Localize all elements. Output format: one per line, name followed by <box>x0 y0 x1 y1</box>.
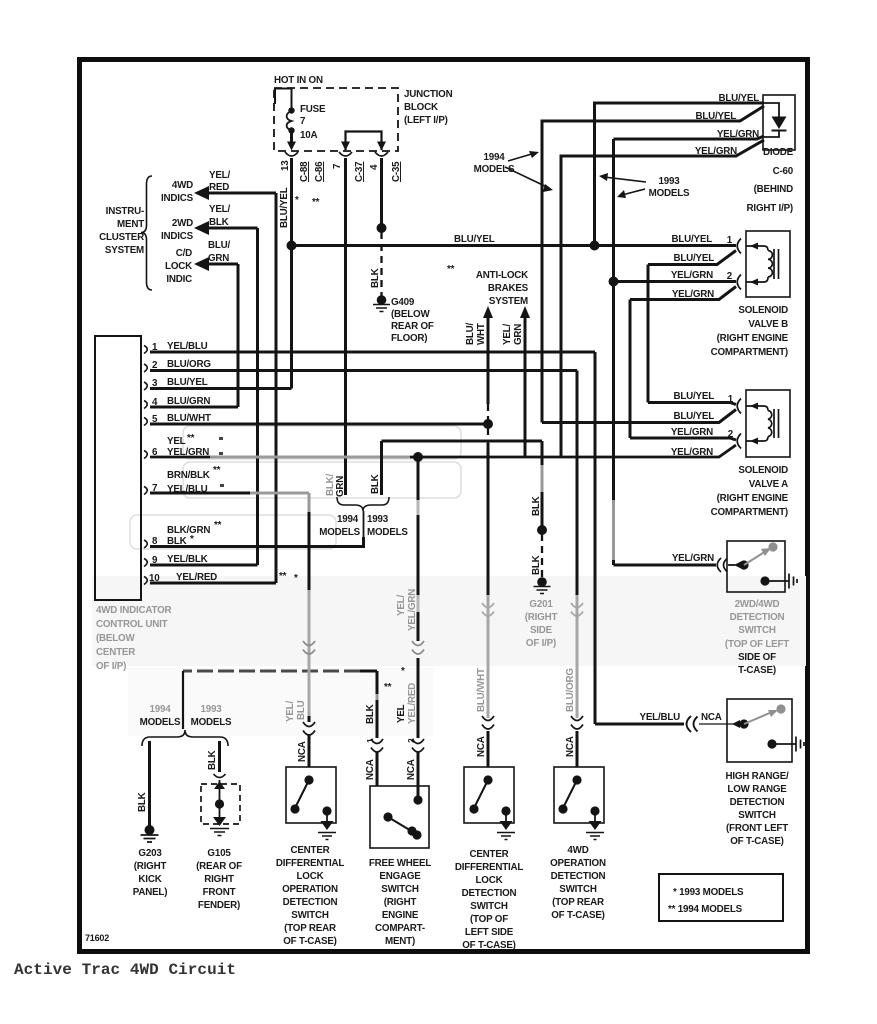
svg-text:7: 7 <box>332 163 343 169</box>
svg-text:REAR OF: REAR OF <box>391 321 434 332</box>
svg-text:1: 1 <box>727 235 733 246</box>
svg-text:YEL/BLU: YEL/BLU <box>639 712 680 723</box>
svg-text:NCA: NCA <box>476 736 487 757</box>
diode C-60 box <box>763 95 795 150</box>
svg-text:SWITCH: SWITCH <box>559 884 597 895</box>
svg-text:10A: 10A <box>300 130 317 141</box>
svg-text:OF T-CASE): OF T-CASE) <box>551 910 605 921</box>
svg-text:COMPARTMENT): COMPARTMENT) <box>711 347 788 358</box>
svg-text:HOT IN ON: HOT IN ON <box>274 75 323 86</box>
vertical YEL/GRN 1993 down to 2wd4wd switch <box>612 139 615 565</box>
svg-text:GRN: GRN <box>208 253 229 264</box>
C/D LOCK INDIC label <box>165 248 192 285</box>
YEL/BLK label <box>209 204 230 228</box>
wire YEL/GRN second to solenoid B <box>630 287 736 300</box>
svg-text:G201: G201 <box>529 599 553 610</box>
svg-text:1993: 1993 <box>659 176 681 187</box>
svg-text:YEL/GRN: YEL/GRN <box>672 553 714 564</box>
high range switch internals <box>732 704 804 751</box>
svg-text:MODELS: MODELS <box>367 527 408 538</box>
svg-text:YEL/BLU: YEL/BLU <box>167 341 208 352</box>
svg-text:NCA: NCA <box>565 736 576 757</box>
svg-text:OPERATION: OPERATION <box>550 858 606 869</box>
svg-text:YEL/RED: YEL/RED <box>176 572 217 583</box>
svg-text:(TOP REAR: (TOP REAR <box>284 923 336 934</box>
pin numbers <box>149 342 160 584</box>
models divider middle <box>363 511 365 547</box>
control unit label (gray) <box>96 605 172 672</box>
svg-text:FENDER): FENDER) <box>198 900 240 911</box>
svg-text:YEL/: YEL/ <box>285 701 296 722</box>
wire YEL/GRN 1994 to diode <box>561 140 764 457</box>
svg-text:SIDE OF: SIDE OF <box>738 652 776 663</box>
2WD/4WD detection switch box <box>727 541 785 592</box>
svg-text:C-88: C-88 <box>299 161 310 182</box>
svg-text:OF T-CASE): OF T-CASE) <box>283 936 337 947</box>
center diff lock detection switch box <box>464 767 514 823</box>
svg-text:YEL/: YEL/ <box>209 204 230 215</box>
pin10 wire YEL/RED <box>150 582 276 585</box>
connector free wheel pin2 <box>412 739 424 752</box>
svg-text:YEL: YEL <box>396 704 407 723</box>
hot bus solid corner <box>275 89 292 109</box>
fuse 7 10A <box>287 104 326 151</box>
svg-text:BLU/GRN: BLU/GRN <box>167 396 210 407</box>
svg-text:(REAR OF: (REAR OF <box>196 861 242 872</box>
pin7 wire <box>150 492 250 495</box>
1993 arrow upper <box>604 177 646 182</box>
high range detection switch box <box>727 699 792 762</box>
center diff detection switch internals <box>469 775 515 839</box>
4WD indicator control unit box <box>95 336 141 600</box>
svg-text:NCA: NCA <box>406 759 417 780</box>
svg-text:BLU: BLU <box>296 700 307 720</box>
svg-text:13: 13 <box>280 160 291 171</box>
asterisk marks free wheel <box>384 666 405 693</box>
svg-text:SWITCH: SWITCH <box>738 810 776 821</box>
svg-text:(RIGHT ENGINE: (RIGHT ENGINE <box>717 493 789 504</box>
svg-text:GRN: GRN <box>335 476 346 497</box>
svg-text:INDICS: INDICS <box>161 231 194 242</box>
svg-text:BLK: BLK <box>370 268 381 288</box>
svg-text:CLUSTER: CLUSTER <box>99 232 144 243</box>
connector G105 <box>214 774 226 778</box>
G203 label <box>133 848 168 898</box>
svg-text:COMPARTMENT): COMPARTMENT) <box>711 507 788 518</box>
svg-text:OF I/P): OF I/P) <box>526 638 556 649</box>
svg-text:SWITCH: SWITCH <box>470 901 508 912</box>
svg-text:SYSTEM: SYSTEM <box>489 296 528 307</box>
svg-text:BLU/YEL: BLU/YEL <box>279 187 290 228</box>
svg-text:(BELOW: (BELOW <box>96 633 135 644</box>
junction dot BLU/YEL diode <box>590 241 600 251</box>
svg-text:1994: 1994 <box>337 514 359 525</box>
pin3 wire BLU/YEL <box>150 387 292 390</box>
solenoid B label <box>711 305 789 358</box>
ABS arrow BLU/WHT <box>483 306 493 443</box>
svg-text:BLK/GRN: BLK/GRN <box>167 525 210 536</box>
svg-text:BLK: BLK <box>531 496 542 516</box>
svg-text:(RIGHT: (RIGHT <box>134 861 167 872</box>
svg-text:LOW RANGE: LOW RANGE <box>727 784 787 795</box>
svg-text:4WD: 4WD <box>567 845 588 856</box>
junction block internal link <box>346 132 382 151</box>
svg-text:1993: 1993 <box>367 514 389 525</box>
solenoid valve B box <box>746 231 790 297</box>
wire BLK to G201 <box>541 441 544 530</box>
svg-text:DETECTION: DETECTION <box>730 797 785 808</box>
connector center diff detection NCA <box>482 716 494 729</box>
junction dot BLK G201 <box>537 525 547 535</box>
pin9 wire YEL/BLK <box>150 564 258 567</box>
svg-text:RIGHT I/P): RIGHT I/P) <box>747 203 793 214</box>
1993 models label middle <box>367 514 408 538</box>
pin4 wire BLU/GRN <box>150 406 238 409</box>
svg-text:SWITCH: SWITCH <box>381 884 419 895</box>
arrow down pin7 <box>341 142 350 151</box>
junction dot BLK <box>377 223 387 233</box>
wire BLK to G105 <box>218 741 221 772</box>
wire YEL/GRN 1993 to diode <box>614 136 765 139</box>
BLU/GRN label <box>208 240 231 264</box>
center diff lock operation switch box <box>286 767 336 823</box>
YEL YEL/GRN gray labels <box>396 589 418 631</box>
watermark band bottom left <box>128 668 433 736</box>
svg-text:MODELS: MODELS <box>191 717 232 728</box>
svg-text:INDICS: INDICS <box>161 193 194 204</box>
svg-text:71602: 71602 <box>85 933 109 943</box>
svg-text:1993: 1993 <box>201 704 223 715</box>
center diff detection label <box>455 849 524 951</box>
pin7 wire faded <box>250 492 309 495</box>
junction dot pin5 BLU/WHT <box>483 419 493 429</box>
free wheel label <box>369 858 431 947</box>
svg-text:LEFT SIDE: LEFT SIDE <box>465 927 514 938</box>
solenoid B pin connectors <box>737 239 741 290</box>
pin7 vertical to operation switch <box>308 493 311 512</box>
svg-text:BLOCK: BLOCK <box>404 102 438 113</box>
1993 models callout <box>649 176 690 199</box>
svg-text:DETECTION: DETECTION <box>551 871 606 882</box>
wire 4WD vertical to pin10 <box>275 193 278 583</box>
G105 dashed box <box>201 784 240 824</box>
svg-text:BLK: BLK <box>209 217 229 228</box>
BLK/GRN rotated label <box>325 473 346 497</box>
svg-text:BLU/ORG: BLU/ORG <box>565 668 576 712</box>
svg-text:G203: G203 <box>138 848 162 859</box>
svg-text:2WD: 2WD <box>172 218 193 229</box>
anti-lock brakes label <box>476 270 529 307</box>
svg-text:C/D: C/D <box>176 248 192 259</box>
svg-text:BLU/WHT: BLU/WHT <box>167 413 211 424</box>
1994 arrow lower <box>505 167 549 188</box>
BLU/WHT rotated label <box>465 322 487 345</box>
border frame <box>80 60 808 952</box>
svg-text:OF I/P): OF I/P) <box>96 661 126 672</box>
wire BLK/GRN vertical from junction block <box>344 158 347 495</box>
wire ground bus bottom left <box>360 670 377 673</box>
svg-text:VALVE B: VALVE B <box>748 319 788 330</box>
svg-text:ANTI-LOCK: ANTI-LOCK <box>476 270 528 281</box>
instrument cluster brace <box>141 176 152 290</box>
svg-text:CENTER: CENTER <box>290 845 329 856</box>
svg-text:YEL: YEL <box>167 436 186 447</box>
connector free wheel pin1 <box>371 739 383 752</box>
1994 models label bottom <box>140 704 181 728</box>
solenoid A label <box>711 465 789 518</box>
svg-text:BLK: BLK <box>531 555 542 575</box>
svg-text:YEL/RED: YEL/RED <box>407 683 418 724</box>
svg-text:**: ** <box>213 465 221 476</box>
svg-text:JUNCTION: JUNCTION <box>404 89 453 100</box>
pin7 labels BRN/BLK / YEL/BLU <box>167 465 224 495</box>
svg-text:* 1993 MODELS: * 1993 MODELS <box>673 887 744 898</box>
wire 2WD vertical to pin9 <box>256 228 259 565</box>
1993 models label bottom <box>191 704 232 728</box>
svg-text:BLU/ORG: BLU/ORG <box>167 359 211 370</box>
arrow down pin4 <box>377 142 386 151</box>
wire BLU/YEL vertical from fuse <box>290 158 293 389</box>
connector center diff operation NCA <box>303 722 315 735</box>
junction block dashed box <box>274 88 398 151</box>
YEL/BLU gray labels <box>285 700 307 722</box>
svg-text:4WD: 4WD <box>172 180 193 191</box>
junction dot solenoid B pin2 <box>609 277 619 287</box>
pin1 vertical to high range switch <box>594 352 597 724</box>
svg-text:BLK: BLK <box>137 792 148 812</box>
svg-text:BLU/YEL: BLU/YEL <box>671 234 712 245</box>
svg-text:OF T-CASE): OF T-CASE) <box>730 836 784 847</box>
wire YEL/GRN to solenoid B pin2 <box>614 280 737 283</box>
svg-text:LOCK: LOCK <box>476 875 503 886</box>
svg-text:C-37: C-37 <box>354 161 365 182</box>
svg-text:YEL/BLK: YEL/BLK <box>167 554 208 565</box>
svg-text:BRN/BLK: BRN/BLK <box>167 470 210 481</box>
connector 2wd4wd <box>717 558 727 572</box>
connector 4wd operation upper <box>571 603 583 616</box>
svg-text:BLU/YEL: BLU/YEL <box>454 234 495 245</box>
svg-text:YEL/GRN: YEL/GRN <box>672 289 714 300</box>
instrument cluster system label <box>99 206 144 256</box>
YEL/RED label <box>209 170 230 193</box>
connector free wheel upper <box>412 641 424 654</box>
wire 4WD indicator <box>208 192 276 195</box>
svg-text:**: ** <box>279 571 287 582</box>
pin hooks 1-10 <box>144 346 147 585</box>
svg-text:BLU/: BLU/ <box>465 322 476 345</box>
wire free wheel pin2 vertical <box>417 457 420 799</box>
wire BLU/YEL second to solenoid A <box>542 410 736 423</box>
watermark band upper <box>130 426 461 549</box>
ground G203 <box>141 825 159 842</box>
svg-text:BLK: BLK <box>207 750 218 770</box>
svg-text:**: ** <box>214 520 222 531</box>
wire YEL/BLU to high range switch <box>595 723 684 726</box>
svg-text:(FRONT LEFT: (FRONT LEFT <box>726 823 788 834</box>
svg-text:COMPART-: COMPART- <box>375 923 425 934</box>
pin10 asterisk marks <box>279 571 298 584</box>
svg-text:ENGINE: ENGINE <box>382 910 419 921</box>
svg-text:YEL/GRN: YEL/GRN <box>695 146 737 157</box>
svg-text:2: 2 <box>727 271 733 282</box>
svg-text:YEL/GRN: YEL/GRN <box>717 129 759 140</box>
ground G201 <box>534 577 551 593</box>
connector C-37 <box>339 152 352 156</box>
wire BLK 1993 horizontal <box>382 440 543 443</box>
svg-text:MODELS: MODELS <box>140 717 181 728</box>
svg-text:C-35: C-35 <box>391 161 402 182</box>
svg-text:YEL/: YEL/ <box>396 595 407 616</box>
wire BLU/YEL 1993 to diode <box>595 103 765 246</box>
models brace middle <box>337 497 389 511</box>
wire BLU/YEL second to solenoid B <box>648 251 736 265</box>
svg-text:2: 2 <box>728 429 734 440</box>
svg-text:BLU/YEL: BLU/YEL <box>718 93 759 104</box>
pin8 labels BLK/GRN / BLK <box>167 520 222 547</box>
svg-text:YEL/GRN: YEL/GRN <box>671 447 713 458</box>
svg-text:BLU/YEL: BLU/YEL <box>695 111 736 122</box>
connector center diff operation upper <box>303 641 315 654</box>
svg-text:BLU/WHT: BLU/WHT <box>476 668 487 712</box>
svg-text:(RIGHT ENGINE: (RIGHT ENGINE <box>717 333 789 344</box>
svg-text:BLU/YEL: BLU/YEL <box>673 253 714 264</box>
svg-text:*: * <box>295 195 299 206</box>
solenoid B coil <box>746 243 779 286</box>
wire free wheel pin1 vertical <box>376 671 379 786</box>
pin6 wire faded segment <box>210 456 410 459</box>
wire BLK 1993 vertical stub <box>380 441 383 495</box>
high range switch label <box>725 771 789 847</box>
svg-text:BLU/: BLU/ <box>208 240 231 251</box>
wire into 2wd4wd switch <box>729 564 740 566</box>
wire YEL/GRN first to solenoid A <box>630 438 736 440</box>
svg-text:G409: G409 <box>391 297 415 308</box>
svg-text:1: 1 <box>728 394 734 405</box>
svg-text:CENTER: CENTER <box>96 647 135 658</box>
svg-text:NCA: NCA <box>701 712 722 723</box>
center diff operation switch internals <box>290 775 336 839</box>
svg-text:*: * <box>401 666 405 677</box>
svg-text:FRONT: FRONT <box>203 887 236 898</box>
svg-text:YEL/GRN: YEL/GRN <box>671 427 713 438</box>
pin2 wire BLU/ORG <box>150 369 577 372</box>
connector 4wd operation NCA <box>571 716 583 729</box>
wire 4wd operation vertical <box>576 371 579 768</box>
connector center diff detection upper <box>482 603 494 616</box>
G409 label <box>391 297 434 344</box>
watermark band lower <box>92 576 806 666</box>
svg-text:YEL/GRN: YEL/GRN <box>407 589 418 631</box>
svg-text:YEL/: YEL/ <box>502 324 513 345</box>
connector high range <box>687 716 698 732</box>
arrow 2WD indicator <box>194 221 209 235</box>
vertical solenoid B pin2 to solenoid A pin2 <box>629 300 632 439</box>
junction dot BLU/YEL fuse <box>287 241 297 251</box>
svg-text:DETECTION: DETECTION <box>730 612 785 623</box>
svg-text:SOLENOID: SOLENOID <box>738 305 788 316</box>
svg-text:BLK: BLK <box>365 704 376 724</box>
2wd4wd switch internals <box>728 542 797 588</box>
1994 models callout <box>474 152 515 175</box>
4WD INDICS label <box>161 180 194 204</box>
svg-text:CENTER: CENTER <box>469 849 508 860</box>
svg-text:SWITCH: SWITCH <box>291 910 329 921</box>
wire BLU/YEL 1994 to diode <box>542 106 764 423</box>
svg-text:BLU/YEL: BLU/YEL <box>673 391 714 402</box>
dashed BLK wire to G409 <box>380 232 382 296</box>
svg-text:MENT): MENT) <box>385 936 415 947</box>
G105 label <box>196 848 242 911</box>
svg-text:SIDE: SIDE <box>530 625 553 636</box>
svg-text:**: ** <box>187 433 195 444</box>
svg-text:SWITCH: SWITCH <box>738 625 776 636</box>
4wd operation label <box>550 845 606 921</box>
free wheel engage switch box <box>370 786 429 848</box>
svg-text:CONTROL UNIT: CONTROL UNIT <box>96 619 168 630</box>
wire 2WD indicator <box>208 227 258 230</box>
svg-text:BRAKES: BRAKES <box>488 283 529 294</box>
2wd4wd switch label <box>725 599 789 676</box>
svg-text:BLU/YEL: BLU/YEL <box>673 411 714 422</box>
pin5 wire BLU/WHT <box>150 423 488 426</box>
svg-text:SYSTEM: SYSTEM <box>105 245 144 256</box>
svg-text:4WD INDICATOR: 4WD INDICATOR <box>96 605 172 616</box>
solenoid A coil <box>746 403 779 445</box>
connector C-35 <box>375 152 388 156</box>
wire BLU/YEL first to solenoid A <box>648 403 736 405</box>
svg-text:FLOOR): FLOOR) <box>391 333 427 344</box>
svg-text:NCA: NCA <box>365 759 376 780</box>
vertical solenoid B pin1 to solenoid A pin1 <box>647 265 650 403</box>
svg-text:INSTRU-: INSTRU- <box>106 206 144 217</box>
diode label <box>747 147 794 214</box>
ground G409 <box>373 295 390 311</box>
svg-text:MODELS: MODELS <box>649 188 690 199</box>
YEL/GRN rotated label <box>502 324 524 345</box>
svg-text:** 1994 MODELS: ** 1994 MODELS <box>668 904 743 915</box>
svg-text:VALVE A: VALVE A <box>749 479 788 490</box>
arrow 4WD indicator <box>194 186 209 200</box>
1993 arrow lower <box>622 189 645 195</box>
svg-text:DIFFERENTIAL: DIFFERENTIAL <box>455 862 524 873</box>
svg-text:4: 4 <box>369 164 380 170</box>
svg-text:SOLENOID: SOLENOID <box>738 465 788 476</box>
pin6 labels YEL / YEL/GRN <box>167 433 223 458</box>
svg-text:LOCK: LOCK <box>165 261 192 272</box>
4wd operation detection switch box <box>554 767 604 823</box>
asterisk marks <box>295 195 320 208</box>
wire center diff detection vertical <box>487 443 490 767</box>
svg-text:FUSE: FUSE <box>300 104 326 115</box>
svg-text:**: ** <box>384 682 392 693</box>
svg-text:MENT: MENT <box>117 219 144 230</box>
svg-text:BLK: BLK <box>370 474 381 494</box>
svg-text:OPERATION: OPERATION <box>282 884 338 895</box>
pin6 wire YEL/GRN to solenoid A <box>150 445 736 457</box>
svg-text:2WD/4WD: 2WD/4WD <box>735 599 780 610</box>
wire BLK vertical from junction block <box>380 158 383 228</box>
svg-text:GRN: GRN <box>513 324 524 345</box>
svg-text:*: * <box>294 573 298 584</box>
arrow C/D lock indicator <box>194 257 209 271</box>
svg-text:1994: 1994 <box>150 704 172 715</box>
svg-text:FREE WHEEL: FREE WHEEL <box>369 858 431 869</box>
svg-text:G105: G105 <box>207 848 231 859</box>
svg-text:RED: RED <box>209 182 229 193</box>
svg-text:*: * <box>190 534 194 545</box>
2WD INDICS label <box>161 218 194 242</box>
svg-text:7: 7 <box>300 116 306 127</box>
